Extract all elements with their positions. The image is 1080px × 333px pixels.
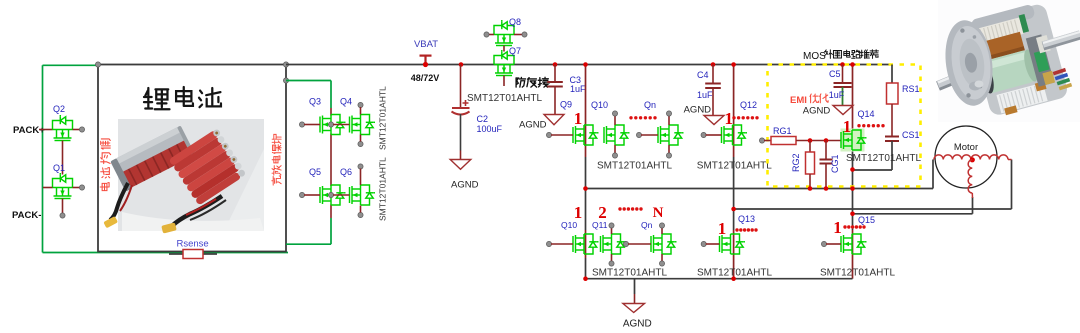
motor photo <box>938 0 1080 122</box>
wire C4 to AGND <box>712 88 714 116</box>
svg-text:Q6: Q6 <box>340 167 352 177</box>
wire Q12 gate lead <box>706 134 722 136</box>
wire Qnb top stub <box>661 228 663 235</box>
wire bridge2 vertical <box>733 65 735 158</box>
label EMI优化 <box>790 94 828 106</box>
node Qn gate terminal <box>636 132 641 137</box>
node Q6 bottom terminal <box>358 212 363 217</box>
node Qnb top terminal <box>659 223 664 228</box>
node Q1 bottom terminal <box>60 213 65 218</box>
node rail-C4 junction <box>711 62 716 67</box>
svg-text:MOS: MOS <box>803 51 826 62</box>
svg-text:Q11: Q11 <box>592 220 608 230</box>
node rail-C3 junction <box>553 62 558 67</box>
wire bridge3 vertical <box>852 65 854 151</box>
svg-text:AGND: AGND <box>803 106 831 117</box>
wire phase C rail <box>853 213 973 215</box>
resistor RG2 <box>806 152 815 174</box>
node Q12 gate terminal <box>701 132 706 137</box>
wire Q10 top stub <box>614 116 616 126</box>
wire Q4 bottom stub <box>360 135 362 142</box>
dotted leader Q14 <box>857 124 860 127</box>
svg-text:RG1: RG1 <box>773 126 792 136</box>
node VBAT junction <box>423 62 428 67</box>
wire AGND stub bottom <box>634 279 636 294</box>
svg-text:SMT12T01AHTL: SMT12T01AHTL <box>697 161 772 172</box>
svg-text:RS1: RS1 <box>902 84 920 94</box>
node bottom rail left junction <box>583 276 588 281</box>
resistor RS1 <box>887 83 899 104</box>
wire Qn bottom stub <box>668 145 670 154</box>
svg-text:Q15: Q15 <box>858 215 875 225</box>
node RG2 bottom junction <box>808 186 813 191</box>
wire Q9 gate lead <box>551 134 573 136</box>
svg-text:1: 1 <box>718 219 727 238</box>
wire Q15 gate lead <box>826 243 841 245</box>
node battery-protection junction <box>283 78 288 83</box>
motor winding center junction <box>970 157 975 162</box>
svg-text:PACK-: PACK- <box>12 210 41 221</box>
transistor Q3 <box>320 115 346 135</box>
wire rail to Q3 drain <box>330 108 332 116</box>
wire Q11 top stub <box>611 228 613 235</box>
wire motor right lead <box>1008 159 1012 161</box>
wire Qn gate lead <box>641 134 658 136</box>
svg-text:1uF: 1uF <box>829 90 845 100</box>
svg-text:CS1: CS1 <box>902 130 920 140</box>
transistor Q10 bottom <box>573 234 599 254</box>
wire Rsense right stub <box>203 253 217 255</box>
node Q14 source junction <box>850 167 855 172</box>
label 防反接 (anti-reverse) <box>516 77 548 87</box>
svg-text:Q1: Q1 <box>53 163 65 173</box>
transistor Q8 <box>494 20 514 46</box>
node phaseA-bridge3 junction <box>850 186 855 191</box>
node Q10 top terminal <box>612 111 617 116</box>
wire phase A riser to motor <box>932 160 934 189</box>
node RG1 left terminal <box>759 138 764 143</box>
wire battery bottom green segment <box>43 252 289 254</box>
wire bridge1 vertical <box>585 65 587 158</box>
node Q8 left terminal <box>484 32 489 37</box>
svg-text:Q9: Q9 <box>560 100 572 110</box>
node Q5 gate terminal <box>299 192 304 197</box>
label 电池均衡 (battery balancing) <box>100 139 110 191</box>
dotted leader 2 to N <box>618 207 621 210</box>
node rail-battery-left <box>95 62 100 67</box>
svg-text:Q5: Q5 <box>309 167 321 177</box>
svg-text:Qn: Qn <box>644 100 656 110</box>
wire phase B rail <box>734 208 1012 210</box>
svg-text:Q14: Q14 <box>858 109 875 119</box>
node Qn top terminal <box>666 111 671 116</box>
node Q3 gate terminal <box>299 122 304 127</box>
wire Q5 source down <box>330 205 332 219</box>
node Q1 right terminal <box>79 185 84 190</box>
svg-text:SMT12T01AHTL: SMT12T01AHTL <box>592 268 667 279</box>
svg-text:Q13: Q13 <box>738 214 755 224</box>
svg-text:SMT12T01AHTL: SMT12T01AHTL <box>378 86 388 150</box>
dotted leader after Q10 <box>629 116 632 119</box>
motor winding vertical <box>968 160 972 193</box>
wire Qnb bottom stub <box>661 254 663 262</box>
wire Q8 right stub <box>514 34 523 36</box>
svg-text:1uF: 1uF <box>697 90 713 100</box>
node phase A junction <box>583 186 588 191</box>
wire phase A rail <box>586 188 934 190</box>
svg-text:C4: C4 <box>697 70 709 80</box>
wire Q11 bottom stub <box>611 254 613 262</box>
transistor Q14 highlight <box>841 129 865 152</box>
svg-text:Q4: Q4 <box>340 97 352 107</box>
node CG1 bottom junction <box>824 186 829 191</box>
svg-text:100uF: 100uF <box>477 124 503 134</box>
ground AGND under C2 <box>450 160 471 170</box>
node rail-battery-right <box>283 62 288 67</box>
wire Q10 bottom stub <box>614 145 616 154</box>
node Q6 top terminal <box>358 164 363 169</box>
transistor Qn bottom <box>651 234 677 254</box>
node rail-C5 junction <box>840 62 845 67</box>
svg-text:Q8: Q8 <box>509 17 521 27</box>
wire CG1 top <box>825 141 827 160</box>
wire Q1 right stub <box>73 187 81 189</box>
svg-text:C5: C5 <box>829 69 841 79</box>
wire rail to C3 <box>554 65 556 83</box>
wire CG1 bottom <box>825 164 827 189</box>
wire Q8 left stub <box>489 34 495 36</box>
node Q6 gate terminal <box>328 192 333 197</box>
transistor Q14 <box>841 130 867 150</box>
label 锂电池 (lithium battery) <box>144 87 221 109</box>
node Q8 right terminal <box>522 32 527 37</box>
motor winding horizontal <box>934 155 1008 160</box>
node Q15 gate terminal <box>821 241 826 246</box>
svg-text:Q3: Q3 <box>309 97 321 107</box>
svg-text:AGND: AGND <box>684 105 712 116</box>
transistor Q9 <box>573 125 599 145</box>
wire rail to C2 <box>460 65 462 109</box>
svg-text:Q7: Q7 <box>509 46 521 56</box>
ground AGND under C4 <box>704 116 724 125</box>
wire Q2-Q1 connector <box>62 141 64 175</box>
wire Rsense left stub <box>169 253 183 255</box>
wire C5 to AGND <box>842 87 844 106</box>
motor symbol circle <box>935 126 997 188</box>
ground AGND under C5 <box>833 106 853 115</box>
wire bottom GND rail <box>586 278 853 280</box>
svg-text:SMT12T01AHTL: SMT12T01AHTL <box>846 153 921 164</box>
wire RS1 to CS1 <box>891 104 893 137</box>
dotted leader Q15 <box>843 225 846 228</box>
wire Q3-Q5 connector <box>330 134 332 187</box>
svg-text:1: 1 <box>574 109 583 128</box>
svg-text:SMT12T01AHTL: SMT12T01AHTL <box>378 157 388 221</box>
wire Q3 gate lead <box>304 124 320 126</box>
svg-text:SMT12T01AHTL: SMT12T01AHTL <box>697 268 772 279</box>
wire RG1 to Q14 gate <box>796 140 841 142</box>
wire rail to C5 <box>842 65 844 84</box>
label MOS外围电路推荐 <box>803 50 878 62</box>
wire phase B riser to motor <box>1011 160 1013 210</box>
resistor RG1 <box>771 137 796 145</box>
node Q10b gate terminal <box>546 241 551 246</box>
wire CS1 to Q14 source <box>853 169 893 171</box>
transistor Q13 <box>720 234 746 254</box>
wire main VBAT rail <box>286 64 892 66</box>
capacitor C2 100uF <box>452 100 470 115</box>
wire RG2 top <box>809 141 811 153</box>
svg-text:1: 1 <box>725 109 734 128</box>
node Qnb gate terminal <box>623 241 628 246</box>
svg-text:AGND: AGND <box>519 120 547 131</box>
transistor Q12 <box>722 125 748 145</box>
svg-text:VBAT: VBAT <box>414 39 438 50</box>
node Q2 right terminal <box>79 127 84 132</box>
svg-text:N: N <box>653 205 664 221</box>
wire C2 to AGND <box>460 114 462 151</box>
node bridge1 rail junction <box>583 62 588 67</box>
transistor Q7 <box>494 50 514 76</box>
svg-text:AGND: AGND <box>451 180 479 191</box>
wire Q4 top stub <box>360 107 362 115</box>
node Q10 bottom terminal <box>612 153 617 158</box>
label 充放电保护 (charge-discharge protection) <box>272 134 281 185</box>
svg-text:Q2: Q2 <box>53 104 65 114</box>
capacitor CG1 <box>820 159 833 161</box>
transistor Q15 <box>841 234 867 254</box>
node bridge2 rail junction <box>731 62 736 67</box>
wire Qnb gate lead <box>628 243 651 245</box>
node Q11 top terminal <box>609 223 614 228</box>
svg-text:1uF: 1uF <box>570 84 586 94</box>
node Q13 gate terminal <box>701 241 706 246</box>
node Q4 top terminal <box>358 102 363 107</box>
transistor Q11 <box>601 234 627 254</box>
wire motor bottom lead <box>971 193 973 198</box>
node rail-C2 junction <box>459 62 464 67</box>
capacitor C5 1uF <box>834 82 852 84</box>
svg-text:CG1: CG1 <box>830 154 840 173</box>
capacitor C4 1uF <box>705 83 721 85</box>
svg-text:PACK+: PACK+ <box>13 125 45 136</box>
wire Q1 bottom stub <box>62 199 64 214</box>
svg-text:1: 1 <box>843 117 852 136</box>
svg-text:Qn: Qn <box>641 220 653 230</box>
transistor Q6 <box>350 185 376 205</box>
node bridge3 rail junction <box>850 62 855 67</box>
battery box 锂电池 <box>98 65 286 252</box>
resistor Rsense <box>183 250 203 259</box>
wire Qn top stub <box>668 116 670 126</box>
protection box right edge upper <box>330 81 332 109</box>
node Qn bottom terminal <box>666 153 671 158</box>
svg-text:48/72V: 48/72V <box>411 73 440 83</box>
transistor Q2 <box>53 115 73 141</box>
wire Q8-Q7 connector <box>503 46 505 52</box>
transistor Q5 <box>320 185 346 205</box>
wire C3 to AGND <box>554 87 556 115</box>
wire Q1 gate lead <box>43 187 53 189</box>
wire Q4 gate lead <box>333 124 350 126</box>
node bottom rail mid junction <box>731 276 736 281</box>
transistor Qn top <box>658 125 684 145</box>
node Qnb bottom terminal <box>659 261 664 266</box>
wire rail to C4 <box>712 65 714 84</box>
node Q4 bottom terminal <box>358 141 363 146</box>
wire Q2 right stub <box>73 129 81 131</box>
transistor Q10 top <box>604 125 630 145</box>
capacitor CS1 <box>885 136 899 138</box>
protection box top edge <box>286 80 331 82</box>
node Q9 gate terminal <box>546 132 551 137</box>
svg-text:C2: C2 <box>477 114 489 124</box>
node Q4 gate terminal <box>328 122 333 127</box>
svg-text:Motor: Motor <box>954 142 978 153</box>
dotted leader after 1 Q12 <box>732 116 735 119</box>
svg-text:EMI: EMI <box>790 95 807 106</box>
wire Q10b gate lead <box>551 243 573 245</box>
node phase B junction <box>731 207 736 212</box>
battery pack photo <box>103 119 264 234</box>
wire battery PACK+ green riser <box>42 65 44 252</box>
capacitor C3 1uF <box>547 81 563 83</box>
wire battery top green segment <box>43 64 99 66</box>
svg-text:Q12: Q12 <box>740 100 757 110</box>
EMI recommendation box (yellow dashed) <box>768 65 921 187</box>
wire Q6 bottom stub <box>360 206 362 213</box>
node RG2 top junction <box>808 138 813 143</box>
wire Q5 gate lead <box>304 194 320 196</box>
wire Q7 bottom stub <box>503 76 505 87</box>
wire Q13 gate lead <box>706 243 720 245</box>
svg-text:1: 1 <box>833 218 842 237</box>
svg-text:Rsense: Rsense <box>177 239 209 250</box>
dotted leader Q13 <box>735 228 738 231</box>
wire RG1 left lead <box>764 140 771 142</box>
wire Q6 top stub <box>360 169 362 186</box>
wire phase C riser to motor <box>972 197 974 214</box>
svg-text:SMT12T01AHTL: SMT12T01AHTL <box>467 93 542 104</box>
transistor Q4 <box>350 115 376 135</box>
svg-text:RG2: RG2 <box>791 153 801 172</box>
node CG1 top junction <box>824 138 829 143</box>
wire Q6 gate lead <box>333 194 350 196</box>
wire PACK+ to Q2 <box>39 129 53 131</box>
wire rail corner to RS1 <box>891 65 893 84</box>
svg-text:Q10: Q10 <box>591 100 608 110</box>
protection box right edge lower <box>330 218 332 244</box>
svg-text:Q10: Q10 <box>561 220 577 230</box>
power flag VBAT <box>420 56 432 65</box>
ground AGND bottom <box>623 304 645 313</box>
wire RG2 bottom <box>809 174 811 189</box>
wire CS1 down <box>891 141 893 170</box>
transistor Q1 <box>53 173 73 199</box>
ground AGND under C3 <box>544 115 564 125</box>
svg-text:SMT12T01AHTL: SMT12T01AHTL <box>597 161 672 172</box>
node phase C junction <box>850 212 855 217</box>
protection box bottom edge <box>286 243 331 245</box>
node Q11 bottom terminal <box>609 261 614 266</box>
svg-text:SMT12T01AHTL: SMT12T01AHTL <box>820 268 895 279</box>
svg-text:AGND: AGND <box>623 319 652 330</box>
